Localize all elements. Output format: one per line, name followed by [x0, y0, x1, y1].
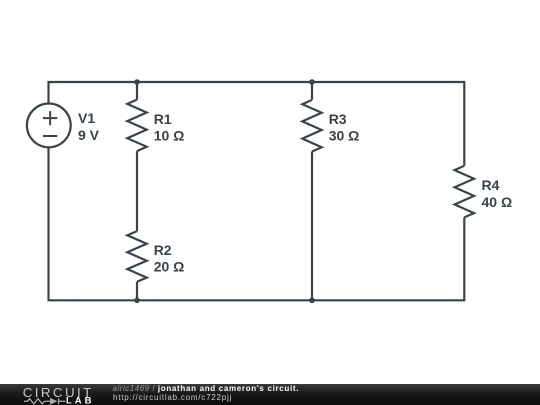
wire R3 bottom lead	[311, 152, 313, 301]
CircuitLab logo	[0, 384, 110, 405]
resistor R4	[455, 166, 474, 218]
node top junction R1	[134, 79, 140, 85]
svg-text:R2: R2	[154, 242, 172, 258]
footer text line 1	[113, 384, 300, 393]
svg-text:R3: R3	[329, 111, 347, 127]
svg-text:R4: R4	[482, 177, 500, 193]
node top junction R3	[309, 79, 315, 85]
logo diode triangle	[50, 397, 58, 404]
wire top rail with left branch and right branch	[49, 82, 465, 166]
wire R1 top lead	[136, 82, 138, 100]
footer bar	[0, 384, 540, 405]
wire R3 top lead	[311, 82, 313, 100]
svg-text:9 V: 9 V	[78, 127, 100, 143]
node bottom junction R3	[309, 298, 315, 304]
wire R2 bottom lead	[136, 282, 138, 301]
V1 plus sign	[43, 117, 57, 119]
wire bottom rail with left branch and right branch	[49, 147, 465, 300]
footer text line 2	[113, 393, 232, 402]
resistor R2	[127, 231, 146, 282]
svg-text:20 Ω: 20 Ω	[154, 259, 185, 275]
logo wire with resistor and diode	[24, 398, 66, 404]
svg-text:V1: V1	[78, 110, 95, 126]
node bottom junction R2	[134, 298, 140, 304]
voltage source V1 circle	[27, 104, 71, 148]
resistor R1	[127, 100, 146, 152]
V1 minus sign	[43, 135, 57, 137]
svg-text:40 Ω: 40 Ω	[482, 194, 513, 210]
svg-text:10 Ω: 10 Ω	[154, 128, 185, 144]
svg-text:LAB: LAB	[66, 395, 95, 405]
svg-text:30 Ω: 30 Ω	[329, 128, 360, 144]
wire R1 to R2	[136, 151, 138, 231]
resistor R3	[302, 100, 321, 152]
svg-text:R1: R1	[154, 111, 172, 127]
